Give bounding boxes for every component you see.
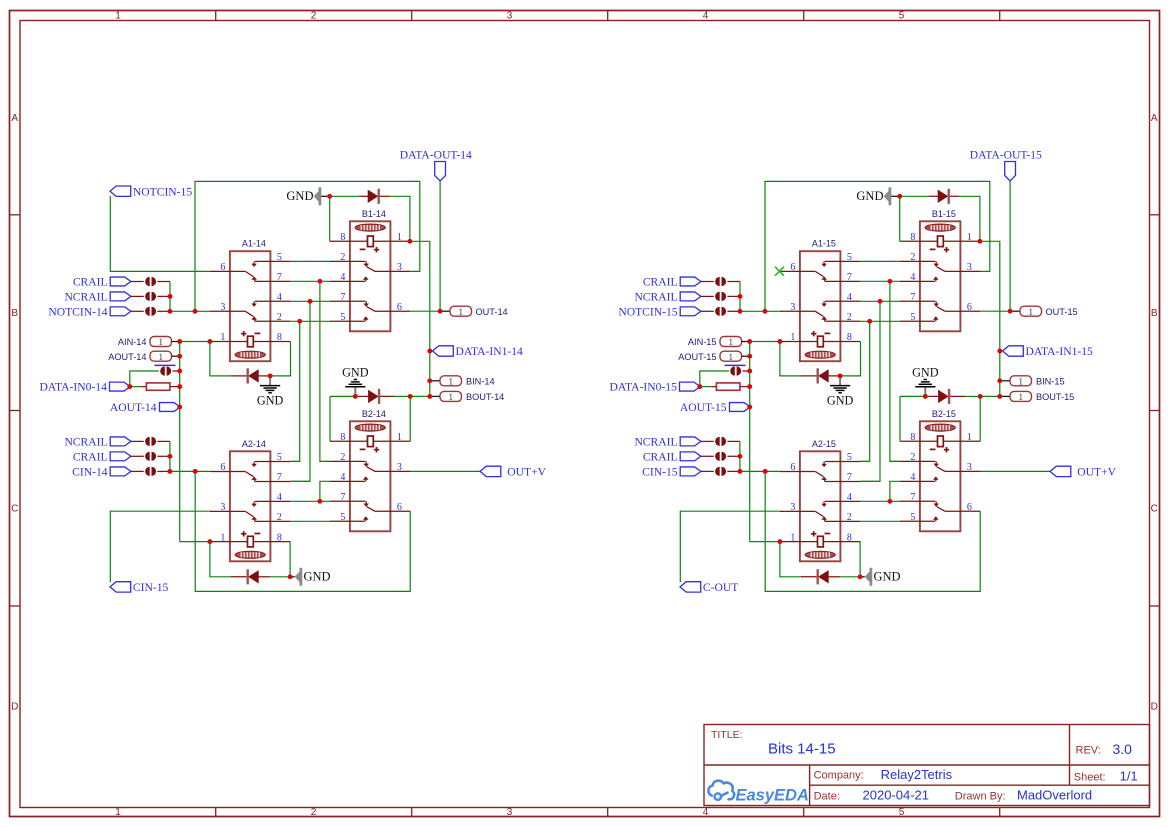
junction B2 pin4 branch [887, 499, 892, 504]
junction GND / B1 pin 8 [327, 194, 332, 199]
wire NOTCIN-15 net up and over to B1 pin 3 [765, 181, 990, 311]
svg-text:NCRAIL: NCRAIL [64, 291, 107, 304]
capacitor on CIN-15 (lower) [715, 467, 720, 476]
wire A2 pin1 down to clamp diode [780, 542, 801, 577]
svg-text:AOUT-14: AOUT-14 [108, 352, 146, 362]
junction upper NCRAIL cap [738, 294, 743, 299]
junction upper NOTCIN cap [168, 309, 173, 314]
stub GND flag (A2) [290, 576, 295, 578]
svg-text:7: 7 [340, 292, 345, 303]
junction DATA-IN1-14 flag [427, 349, 432, 354]
junction upper NOTCIN cap [738, 309, 743, 314]
wire diode to B2 pin1 node [395, 395, 410, 397]
junction A1 pin7 riser [317, 279, 322, 284]
svg-text:4: 4 [277, 292, 282, 303]
svg-text:8: 8 [340, 232, 345, 243]
flag NCRAIL (lower) [110, 437, 131, 446]
wire B2 pin2 stub [890, 460, 900, 462]
junction A1 clamp GND [838, 373, 843, 378]
svg-text:1: 1 [1028, 308, 1033, 318]
wire capacitor NCRAIL to junction [157, 440, 170, 442]
svg-text:1: 1 [397, 432, 402, 443]
stub AOUT-14 port [172, 355, 180, 357]
junction BIN-14 [427, 378, 432, 383]
flag CRAIL (lower) [110, 452, 131, 461]
junction A2 clamp GND [858, 574, 863, 579]
svg-text:DATA-OUT-15: DATA-OUT-15 [970, 149, 1042, 162]
wire diode D1 cathode to B1 pin 1 [959, 196, 980, 241]
svg-text:Date:: Date: [814, 791, 840, 803]
svg-text:1: 1 [220, 532, 225, 543]
diode D3-14 (B2 clamp) leads [359, 395, 369, 397]
ground symbol (B2 clamp) [924, 387, 926, 397]
svg-text:CIN-15: CIN-15 [133, 581, 169, 594]
svg-text:BIN-14: BIN-14 [466, 376, 495, 386]
svg-text:CIN-15: CIN-15 [642, 466, 678, 479]
svg-text:8: 8 [910, 232, 915, 243]
svg-text:GND: GND [286, 189, 313, 203]
svg-text:OUT+V: OUT+V [1077, 466, 1116, 479]
wire CIN-15 to A2 pin 6 [740, 470, 780, 472]
stub BOUT-14 port [430, 395, 440, 397]
relay A2-15 [780, 439, 861, 562]
stub BIN-15 port [1000, 380, 1010, 382]
port OUT-14 [450, 306, 472, 316]
svg-text:NCRAIL: NCRAIL [634, 291, 677, 304]
wire A2 clamp diode to GND dot [840, 576, 860, 578]
svg-text:1: 1 [790, 532, 795, 543]
svg-text:1: 1 [1018, 393, 1023, 403]
svg-text:7: 7 [847, 272, 852, 283]
svg-text:NOTCIN-14: NOTCIN-14 [48, 305, 107, 318]
wire capacitor to DATA-IN0 node [700, 371, 729, 387]
wire AIN net riser down to A2 pin 1 [749, 342, 751, 542]
svg-text:A: A [11, 113, 18, 124]
port BIN-15 [1010, 376, 1032, 386]
wire A1 pin4 - B1 pin7 [860, 300, 900, 302]
wire clamp diode to A1 pin 8 [270, 342, 290, 376]
svg-text:3: 3 [220, 302, 225, 313]
svg-text:1/1: 1/1 [1120, 769, 1138, 784]
flag CRAIL (upper) [680, 277, 701, 286]
svg-text:5: 5 [899, 807, 905, 818]
svg-text:5: 5 [910, 512, 915, 523]
wire joining lower rail capacitors [169, 441, 171, 471]
wire NCRAIL to capacitor [701, 295, 714, 297]
border column ticks (bottom) [215, 808, 217, 817]
svg-text:2: 2 [910, 452, 915, 463]
wire capacitor CRAIL to junction [727, 281, 740, 283]
wire NCRAIL to capacitor [131, 295, 144, 297]
svg-text:TITLE:: TITLE: [711, 729, 743, 741]
port BOUT-14 [440, 391, 462, 401]
svg-text:7: 7 [277, 472, 282, 483]
diode D3-15 (B2 clamp) [938, 390, 949, 403]
relay A1-14 [210, 239, 291, 362]
junction BOUT-15 [997, 394, 1002, 399]
svg-text:6: 6 [790, 262, 795, 273]
capacitor on NOTCIN-15 (upper) [715, 307, 720, 316]
junction BIN-15 [997, 378, 1002, 383]
svg-text:D: D [11, 702, 18, 713]
relay B1-14 [330, 209, 411, 331]
wire A1 pin7 - B1 pin4 [290, 280, 330, 282]
resistor R-14 leads [142, 386, 147, 388]
svg-text:C: C [11, 504, 18, 515]
wire CRAIL to capacitor [701, 455, 714, 457]
wire GND down to B1 pin 8 [329, 196, 331, 241]
junction AOUT port [177, 354, 182, 359]
svg-text:3: 3 [507, 11, 513, 22]
svg-text:8: 8 [910, 432, 915, 443]
svg-text:6: 6 [220, 262, 225, 273]
polarity mark over capacitor [725, 364, 746, 366]
junction B1 pin 1 [407, 239, 412, 244]
wire capacitor CIN-14 to junction [157, 470, 170, 472]
svg-text:A2-14: A2-14 [242, 439, 266, 449]
svg-text:B2-15: B2-15 [932, 409, 956, 419]
capacitor on CRAIL (lower) [145, 452, 150, 461]
svg-text:AIN-14: AIN-14 [118, 337, 147, 347]
resistor R-15 leads [712, 386, 717, 388]
svg-text:6: 6 [397, 502, 402, 513]
diode D1-14 (B1 clamp) [368, 190, 379, 203]
svg-text:CRAIL: CRAIL [643, 276, 678, 289]
stub OUT-14 port [440, 310, 450, 312]
ground symbol (A1 clamp) [839, 376, 841, 386]
border column ticks (top) [215, 11, 217, 21]
wire A1 pin7 down to B2 pin 2 [320, 281, 330, 461]
polarity mark over capacitor [155, 364, 176, 366]
flag DATA-IN0-15 [680, 382, 701, 391]
wire A1 pin2 - B1 pin5 [860, 320, 900, 322]
wire A1 pin5 - B1 pin2 [860, 260, 900, 262]
junction B2 pin4 branch [317, 499, 322, 504]
wire A2 pin5 stub [290, 460, 299, 462]
junction resistor / AIN riser [747, 384, 752, 389]
wire capacitor NCRAIL to junction [157, 295, 170, 297]
stub OUT-15 port [1010, 310, 1020, 312]
svg-text:CRAIL: CRAIL [643, 450, 678, 463]
diode D2-15 (A1 clamp) leads [801, 375, 818, 377]
wire B1 pin1 to DATA-IN1-15 riser [980, 241, 1000, 396]
wire CRAIL to capacitor [131, 455, 144, 457]
flag NOTCIN-15 (upper) [680, 307, 701, 316]
wire diode to B2 pin1 node [965, 395, 980, 397]
resistor R-15 [716, 383, 740, 390]
port OUT-15 [1020, 306, 1042, 316]
wire A2 pin4 - B2 pin7 [860, 500, 900, 502]
wire down to B2 pin 1 [979, 396, 981, 441]
svg-text:NOTCIN-15: NOTCIN-15 [133, 185, 192, 198]
junction upper NCRAIL cap [168, 294, 173, 299]
junction AOUT flag / AIN riser [747, 405, 752, 410]
title block frame [704, 725, 1150, 806]
junction capacitor / AIN riser [177, 369, 182, 374]
junction AOUT flag / AIN riser [177, 405, 182, 410]
diode D4-15 (A2 clamp) [818, 570, 829, 583]
flag NOTCIN-14 (upper) [110, 307, 131, 316]
junction BOUT-14 [427, 394, 432, 399]
svg-text:2: 2 [847, 512, 852, 523]
svg-text:8: 8 [847, 532, 852, 543]
wire B2 clamp to BOUT node [980, 395, 1000, 397]
wire CRAIL to capacitor [131, 281, 144, 283]
svg-text:GND: GND [912, 366, 939, 380]
svg-text:2: 2 [340, 452, 345, 463]
svg-text:3: 3 [397, 262, 402, 273]
wire CIN-15 to capacitor [701, 470, 714, 472]
junction DATA-IN0 flag / cap branch [697, 384, 702, 389]
capacitor on CRAIL (upper) [145, 277, 150, 286]
diode D4-14 (A2 clamp) [248, 570, 259, 583]
junction AOUT port [747, 354, 752, 359]
svg-text:Drawn By:: Drawn By: [955, 791, 1006, 803]
svg-text:3: 3 [507, 807, 513, 818]
relay A1-15 [780, 239, 861, 362]
svg-text:1: 1 [967, 232, 972, 243]
svg-text:8: 8 [340, 432, 345, 443]
port BIN-14 [440, 376, 462, 386]
flag OUT+V [1050, 466, 1071, 476]
svg-text:2: 2 [910, 252, 915, 263]
wire AIN riser to A2 pin 1 [180, 541, 210, 543]
svg-text:1: 1 [115, 11, 121, 22]
svg-text:3: 3 [397, 462, 402, 473]
svg-text:MadOverlord: MadOverlord [1017, 788, 1092, 803]
diode D3-15 (B2 clamp) leads [929, 395, 939, 397]
junction resistor / AIN riser [177, 384, 182, 389]
svg-text:OUT+V: OUT+V [507, 466, 546, 479]
wire capacitor NOTCIN-15 to junction [727, 310, 740, 312]
svg-text:CRAIL: CRAIL [73, 450, 108, 463]
junction DATA-IN0 flag / cap branch [127, 384, 132, 389]
flag DATA-OUT-15 [1005, 162, 1016, 181]
relay B2-15 [900, 409, 981, 532]
wire down to B2 pin 1 [409, 396, 411, 441]
svg-text:3: 3 [967, 262, 972, 273]
capacitor on NOTCIN-14 (upper) [145, 307, 150, 316]
svg-text:7: 7 [847, 472, 852, 483]
junction B2 pin 1 node [408, 394, 413, 399]
wire clamp diode to A1 pin 8 [840, 342, 860, 376]
border row ticks (left) [10, 214, 21, 216]
wire DATA-IN0-14 to resistor R-14 [130, 386, 142, 388]
junction A1 pin2 riser [297, 319, 302, 324]
wire NOTCIN-14 to capacitor [131, 310, 144, 312]
relay B1-15 [900, 209, 981, 331]
wire GND row left to diode [900, 395, 929, 397]
svg-text:3: 3 [967, 462, 972, 473]
power flag GND (top) [319, 187, 322, 205]
wire NOTCIN-14 to A1 pin 3 [170, 310, 210, 312]
svg-text:GND: GND [304, 570, 331, 584]
svg-text:4: 4 [703, 807, 709, 818]
svg-text:4: 4 [277, 492, 282, 503]
junction A1 pin1 / clamp [207, 339, 212, 344]
junction A2 clamp GND [288, 574, 293, 579]
junction A1 pin2 riser [867, 319, 872, 324]
svg-text:B: B [1151, 308, 1158, 319]
junction DATA-OUT-14 / OUT-14 [438, 309, 443, 314]
wire AIN to A1 pin 1 [750, 341, 780, 343]
stub BIN-14 port [430, 380, 440, 382]
wire capacitor CRAIL to junction [157, 455, 170, 457]
svg-text:5: 5 [277, 252, 282, 263]
wire A1 pin1 down to clamp diode [780, 342, 801, 376]
power flag GND (A2 clamp) [870, 568, 873, 586]
flag AOUT-14 [160, 403, 181, 412]
wire A2 pin 8 down to clamp [859, 542, 861, 577]
svg-text:1: 1 [158, 353, 163, 363]
svg-text:8: 8 [847, 332, 852, 343]
wire B2 pin4 down to row [320, 481, 330, 501]
svg-text:1: 1 [220, 332, 225, 343]
power flag GND (A2 clamp) [300, 568, 303, 586]
junction CIN-14 / bottom rail riser [193, 469, 198, 474]
wire A1 pin7 - B1 pin4 [860, 280, 900, 282]
wire A2 pin5 stub [860, 460, 869, 462]
svg-text:DATA-IN0-15: DATA-IN0-15 [610, 381, 678, 394]
svg-text:AOUT-14: AOUT-14 [110, 401, 157, 414]
wire GND down to B1 pin 8 [899, 196, 901, 241]
flag DATA-IN1-14 [433, 346, 454, 356]
svg-text:EasyEDA: EasyEDA [736, 787, 809, 805]
svg-text:OUT-15: OUT-15 [1046, 307, 1078, 317]
wire capacitor to AIN riser [743, 370, 750, 372]
wire NOTCIN-15 to A1 pin 6 [110, 196, 210, 272]
svg-text:Sheet:: Sheet: [1074, 772, 1106, 784]
svg-text:4: 4 [340, 272, 345, 283]
wire A1 pin4 down to A2 pin 7 [290, 301, 310, 481]
diode D2-14 (A1 clamp) leads [231, 375, 248, 377]
stub GND flag to wire [891, 195, 900, 197]
svg-text:REV:: REV: [1076, 745, 1101, 757]
svg-text:B1-15: B1-15 [932, 209, 956, 219]
wire A1 pin4 down to A2 pin 7 [860, 301, 880, 481]
svg-text:1: 1 [790, 332, 795, 343]
flag NCRAIL (upper) [110, 292, 131, 301]
svg-text:C-OUT: C-OUT [703, 581, 738, 594]
junction lower CIN cap [167, 469, 172, 474]
svg-text:4: 4 [847, 292, 852, 303]
junction GND (B2) [353, 394, 358, 399]
wire A2 pin2 - B2 pin5 [860, 520, 900, 522]
junction CIN-15 / bottom rail riser [763, 469, 768, 474]
svg-text:GND: GND [874, 570, 901, 584]
wire capacitor NOTCIN-14 to junction [157, 310, 170, 312]
junction NOTCIN-15 / B1 pin 3 riser [763, 309, 768, 314]
wire DATA-IN0-15 to resistor R-15 [700, 386, 712, 388]
svg-text:D: D [1151, 702, 1158, 713]
flag DATA-OUT-14 [435, 162, 446, 181]
diode D2-14 (A1 clamp) [248, 369, 259, 382]
svg-text:BIN-15: BIN-15 [1036, 376, 1065, 386]
svg-text:1: 1 [728, 338, 733, 348]
junction A1 pin4 riser [308, 299, 313, 304]
svg-text:4: 4 [340, 472, 345, 483]
wire DATA-OUT-14 down to B1 pin 6 [439, 181, 441, 311]
wire GND row down to B2 pin 8 [899, 396, 901, 441]
svg-text:1: 1 [448, 393, 453, 403]
flag CRAIL (lower) [680, 452, 701, 461]
flag OUT+V [480, 466, 501, 476]
svg-text:6: 6 [397, 302, 402, 313]
wire A2 pin2 - B2 pin5 [290, 520, 330, 522]
svg-text:8: 8 [277, 532, 282, 543]
wire A1 pin5 - B1 pin2 [290, 260, 330, 262]
wire GND row left to diode [330, 395, 359, 397]
svg-text:8: 8 [277, 332, 282, 343]
svg-text:GND: GND [856, 189, 883, 203]
wire NOTCIN-15 to A1 pin 3 [740, 310, 780, 312]
flag DATA-IN1-15 [1003, 346, 1024, 356]
EasyEDA logo cloud [708, 781, 734, 800]
wire capacitor CRAIL to junction [727, 455, 740, 457]
svg-text:C: C [1151, 504, 1158, 515]
diode D4-14 (A2 clamp) leads [231, 576, 248, 578]
wire joining upper rail capacitors [739, 282, 741, 312]
junction NOTCIN-14 / B1 pin 3 riser [193, 309, 198, 314]
border row ticks (right) [1150, 214, 1160, 216]
resistor R-14 [146, 383, 170, 390]
junction AIN/AOUT [177, 339, 182, 344]
port AOUT-14 [150, 351, 172, 361]
junction AIN/AOUT [747, 339, 752, 344]
junction capacitor / AIN riser [747, 369, 752, 374]
svg-text:7: 7 [910, 292, 915, 303]
wire capacitor NCRAIL to junction [727, 440, 740, 442]
svg-text:2020-04-21: 2020-04-21 [863, 788, 930, 803]
svg-text:3: 3 [220, 502, 225, 513]
ground symbol (B2 clamp) [354, 387, 356, 397]
svg-text:DATA-IN1-14: DATA-IN1-14 [456, 345, 524, 358]
wire A2 pin 8 down to clamp [289, 542, 291, 577]
svg-text:5: 5 [910, 312, 915, 323]
svg-text:A1-15: A1-15 [812, 239, 836, 249]
flag DATA-IN0-14 [110, 382, 131, 391]
wire NOTCIN-15 to capacitor [701, 310, 714, 312]
wire A2 clamp diode to GND dot [270, 576, 290, 578]
svg-text:2: 2 [311, 11, 317, 22]
svg-text:NCRAIL: NCRAIL [634, 436, 677, 449]
wire AIN to A1 pin 1 [180, 341, 210, 343]
svg-text:7: 7 [277, 272, 282, 283]
junction B2 pin 1 node [978, 394, 983, 399]
relay B2-14 [330, 409, 411, 532]
svg-text:A2-15: A2-15 [812, 439, 836, 449]
svg-text:NCRAIL: NCRAIL [64, 436, 107, 449]
relay A2-14 [210, 439, 291, 562]
stub GND flag (A2) [860, 576, 865, 578]
svg-text:AOUT-15: AOUT-15 [680, 401, 727, 414]
junction A1 pin4 riser [878, 299, 883, 304]
svg-text:CIN-14: CIN-14 [72, 466, 108, 479]
svg-text:NOTCIN-15: NOTCIN-15 [618, 305, 677, 318]
svg-text:Relay2Tetris: Relay2Tetris [881, 767, 953, 782]
wire A2 pin7 stub [860, 480, 880, 482]
junction A1 clamp GND [268, 373, 273, 378]
svg-text:2: 2 [277, 312, 282, 323]
svg-text:1: 1 [458, 308, 463, 318]
wire DATA-OUT-15 down to B1 pin 6 [1009, 181, 1011, 311]
svg-text:2: 2 [847, 312, 852, 323]
stub AOUT-15 port [742, 355, 750, 357]
svg-text:Bits 14-15: Bits 14-15 [768, 741, 836, 758]
svg-text:6: 6 [967, 302, 972, 313]
wire diode D1 cathode to B1 pin 1 [389, 196, 410, 241]
svg-text:2: 2 [277, 512, 282, 523]
